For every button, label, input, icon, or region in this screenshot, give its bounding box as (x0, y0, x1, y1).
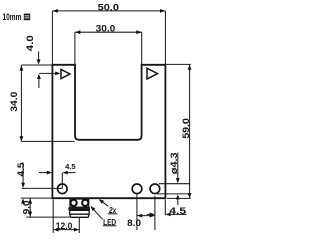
svg-text:4.5: 4.5 (169, 206, 186, 216)
dimension 4.5 rotated left (hole centre to bottom) (16, 163, 26, 204)
svg-text:50.0: 50.0 (98, 3, 119, 13)
top edge extension line left (21, 64, 52, 66)
hole centre extension line to left (22, 187, 63, 189)
connector lower block (70, 214, 88, 217)
dimension 12.0 connector position (53, 199, 79, 233)
slot bottom extension line (21, 140, 74, 142)
note 10mm deep label (3, 12, 31, 22)
dimension 8.0 hole spacing (127, 194, 155, 230)
connector mid block (70, 210, 90, 214)
mounting hole left (58, 184, 68, 194)
svg-text:59.0: 59.0 (181, 118, 191, 139)
connector oval left (71, 200, 77, 206)
svg-text:9.0: 9.0 (22, 200, 32, 214)
svg-text:10mm: 10mm (3, 12, 22, 22)
dimension 4.0 (top edge to optical axis) (25, 35, 41, 88)
optical axis mark left (triangle) (61, 69, 70, 78)
mounting hole middle (132, 184, 142, 194)
svg-text:12.0: 12.0 (56, 221, 73, 231)
dimension 59.0 body height right (166, 64, 192, 198)
sensor body outline (U-shaped slot housing) (52, 65, 165, 198)
svg-text:4.0: 4.0 (25, 35, 35, 51)
dimension 50.0 top (52, 3, 165, 65)
svg-text:34.0: 34.0 (9, 92, 19, 112)
dimension 30.0 slot width (75, 24, 142, 65)
svg-text:30.0: 30.0 (96, 24, 116, 34)
svg-text:8.0: 8.0 (127, 218, 141, 228)
dimension 9.0 connector height (22, 198, 33, 217)
connector bottom extension line (26, 216, 69, 218)
connector oval right (LED) (82, 200, 88, 206)
dimension o4.3 hole diameter (157, 152, 190, 205)
dimension 4.5 left hole from edge (39, 162, 76, 189)
optical axis arrow pointing at left triangle (39, 72, 60, 76)
dimension 34.0 slot depth (9, 65, 23, 141)
body bottom extension line left (21, 197, 52, 199)
callout 2x (99, 199, 118, 215)
cable connector neck (70, 199, 89, 207)
connector flange (dark band) (68, 207, 90, 210)
dimension 4.5 bottom right (hole to edge) (147, 199, 187, 216)
svg-text:4.5: 4.5 (16, 163, 26, 177)
callout LED (90, 206, 116, 227)
optical axis mark right (triangle) (147, 68, 158, 79)
svg-text:4.5: 4.5 (65, 162, 76, 171)
mounting hole right (150, 184, 160, 194)
